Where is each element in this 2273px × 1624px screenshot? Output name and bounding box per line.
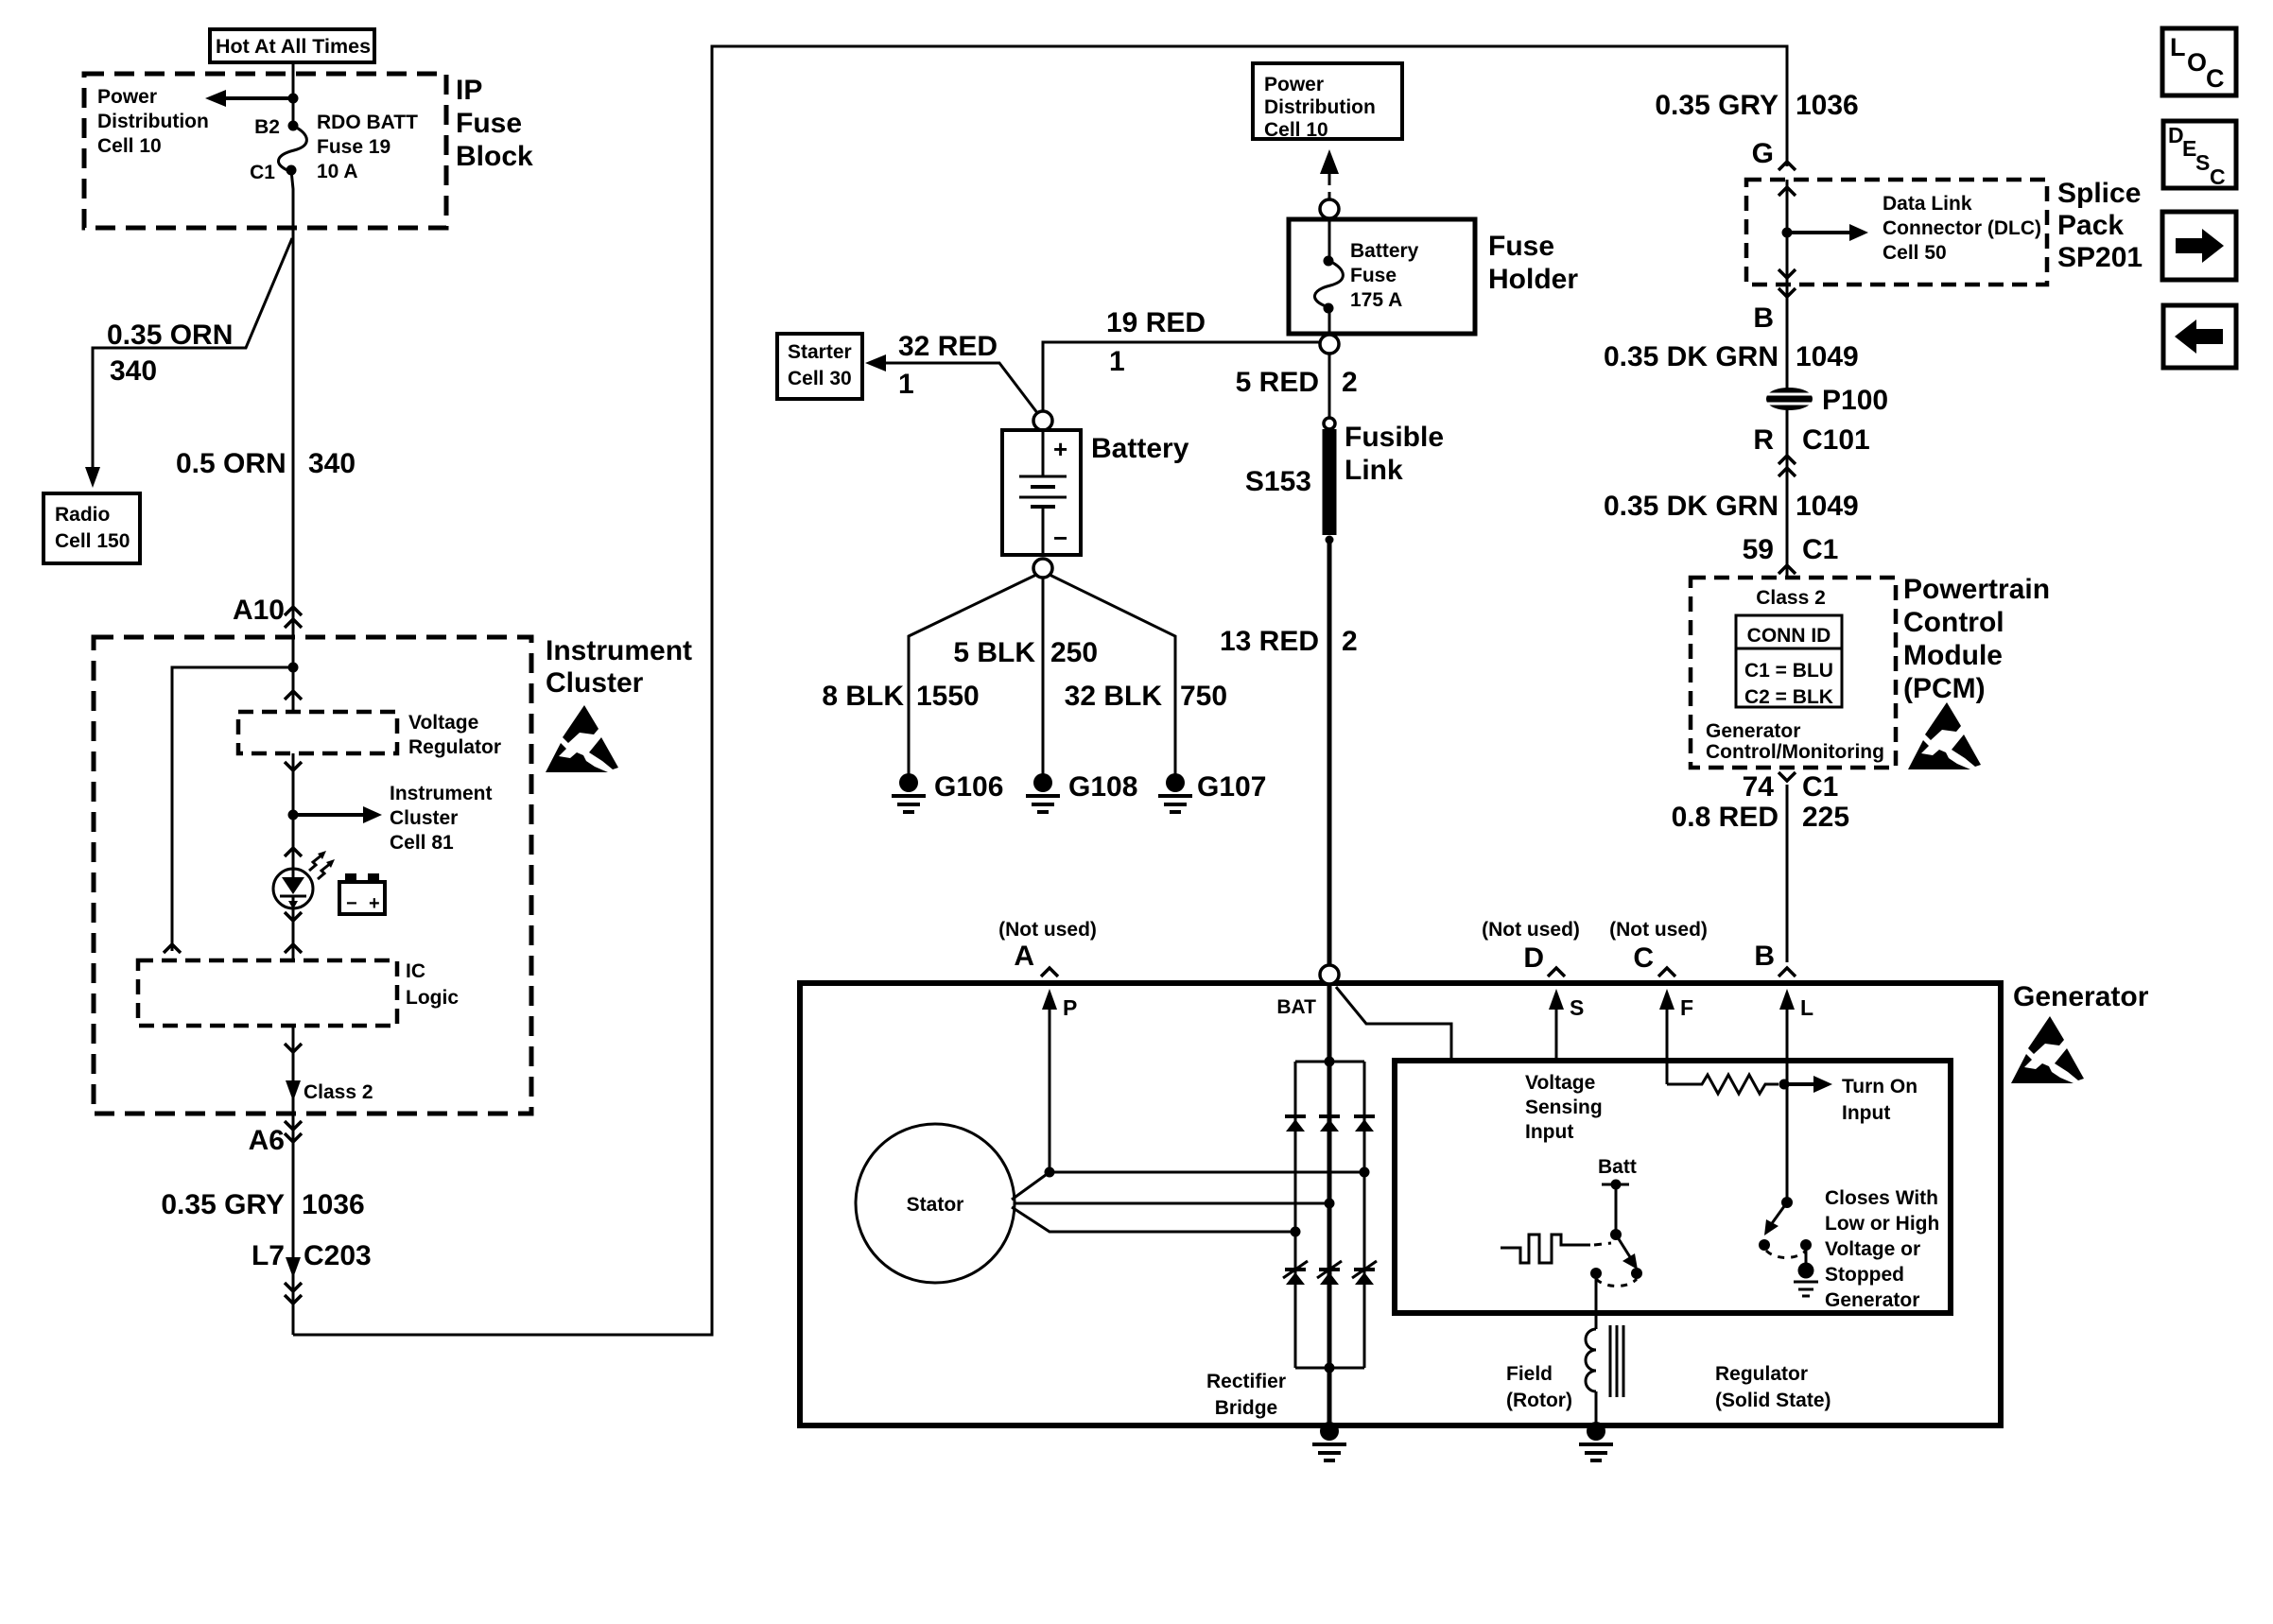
svg-text:8 BLK: 8 BLK bbox=[822, 681, 904, 712]
svg-text:1: 1 bbox=[898, 369, 914, 400]
svg-text:S: S bbox=[2195, 150, 2210, 175]
svg-text:0.35 ORN: 0.35 ORN bbox=[107, 320, 233, 351]
svg-text:A10: A10 bbox=[233, 595, 285, 626]
svg-text:C: C bbox=[2206, 64, 2225, 93]
svg-text:2: 2 bbox=[1342, 367, 1358, 398]
svg-text:74: 74 bbox=[1743, 771, 1775, 803]
svg-text:250: 250 bbox=[1050, 637, 1098, 668]
svg-text:1: 1 bbox=[1109, 346, 1125, 377]
svg-text:Generator: Generator bbox=[2013, 981, 2149, 1012]
svg-text:C2 = BLK: C2 = BLK bbox=[1744, 686, 1833, 708]
svg-text:0.35 GRY: 0.35 GRY bbox=[161, 1189, 285, 1220]
svg-text:Class 2: Class 2 bbox=[1756, 587, 1826, 609]
svg-text:G107: G107 bbox=[1197, 771, 1266, 803]
svg-text:C101: C101 bbox=[1802, 424, 1870, 456]
svg-text:L7: L7 bbox=[252, 1240, 285, 1271]
svg-text:Generator: Generator bbox=[1706, 720, 1800, 742]
svg-text:Cell 10: Cell 10 bbox=[97, 135, 162, 157]
svg-text:32 RED: 32 RED bbox=[898, 331, 998, 362]
svg-text:Fuse 19: Fuse 19 bbox=[317, 136, 390, 158]
svg-text:P100: P100 bbox=[1822, 385, 1888, 416]
svg-text:Voltage: Voltage bbox=[1525, 1072, 1595, 1094]
svg-text:19 RED: 19 RED bbox=[1106, 307, 1206, 338]
svg-text:(Solid State): (Solid State) bbox=[1715, 1390, 1831, 1411]
svg-text:0.35 DK GRN: 0.35 DK GRN bbox=[1604, 491, 1778, 522]
svg-text:Hot At All Times: Hot At All Times bbox=[216, 35, 371, 58]
svg-text:C1: C1 bbox=[1802, 534, 1838, 565]
svg-text:C1 = BLU: C1 = BLU bbox=[1744, 660, 1833, 682]
svg-text:Turn On: Turn On bbox=[1842, 1076, 1917, 1097]
svg-text:Stator: Stator bbox=[907, 1194, 964, 1216]
svg-text:R: R bbox=[1753, 424, 1774, 456]
svg-text:(Rotor): (Rotor) bbox=[1506, 1390, 1572, 1411]
svg-text:0.8 RED: 0.8 RED bbox=[1672, 802, 1778, 833]
svg-text:B: B bbox=[1753, 302, 1774, 334]
svg-text:Fuse: Fuse bbox=[1488, 231, 1554, 262]
svg-text:Pack: Pack bbox=[2057, 210, 2124, 241]
svg-text:Battery: Battery bbox=[1350, 240, 1419, 262]
svg-text:Regulator: Regulator bbox=[408, 736, 501, 758]
svg-text:Powertrain: Powertrain bbox=[1903, 574, 2050, 605]
svg-text:Block: Block bbox=[456, 141, 533, 172]
svg-text:Logic: Logic bbox=[406, 987, 459, 1009]
svg-text:1036: 1036 bbox=[302, 1189, 365, 1220]
svg-text:1049: 1049 bbox=[1796, 491, 1859, 522]
svg-text:750: 750 bbox=[1180, 681, 1227, 712]
svg-text:340: 340 bbox=[308, 448, 356, 479]
svg-text:0.5 ORN: 0.5 ORN bbox=[176, 448, 286, 479]
svg-text:225: 225 bbox=[1802, 802, 1849, 833]
svg-text:0.35 DK GRN: 0.35 DK GRN bbox=[1604, 341, 1778, 372]
svg-text:+: + bbox=[1053, 435, 1067, 463]
svg-text:P: P bbox=[1063, 995, 1077, 1020]
svg-text:Closes With: Closes With bbox=[1825, 1187, 1938, 1209]
svg-text:5 BLK: 5 BLK bbox=[953, 637, 1035, 668]
svg-text:Input: Input bbox=[1842, 1102, 1890, 1124]
svg-text:Battery: Battery bbox=[1091, 433, 1189, 464]
svg-text:32 BLK: 32 BLK bbox=[1065, 681, 1163, 712]
svg-text:A: A bbox=[1014, 941, 1034, 972]
svg-text:B2: B2 bbox=[254, 116, 280, 138]
svg-text:Cluster: Cluster bbox=[546, 667, 644, 699]
svg-text:+: + bbox=[369, 893, 380, 914]
svg-text:C1: C1 bbox=[1802, 771, 1838, 803]
svg-text:Module: Module bbox=[1903, 640, 2003, 671]
svg-text:Cell 81: Cell 81 bbox=[390, 832, 454, 854]
svg-text:Regulator: Regulator bbox=[1715, 1363, 1808, 1385]
svg-text:(PCM): (PCM) bbox=[1903, 673, 1986, 704]
svg-text:Control/Monitoring: Control/Monitoring bbox=[1706, 741, 1884, 763]
svg-text:Bridge: Bridge bbox=[1215, 1397, 1278, 1419]
svg-text:0.35 GRY: 0.35 GRY bbox=[1655, 90, 1778, 121]
svg-text:F: F bbox=[1680, 995, 1693, 1020]
svg-text:D: D bbox=[1523, 942, 1544, 974]
svg-text:1550: 1550 bbox=[916, 681, 980, 712]
svg-text:2: 2 bbox=[1342, 626, 1358, 657]
svg-text:Power: Power bbox=[97, 86, 157, 108]
svg-text:Low or High: Low or High bbox=[1825, 1213, 1939, 1235]
svg-text:G108: G108 bbox=[1068, 771, 1137, 803]
svg-text:L: L bbox=[2170, 33, 2186, 61]
svg-text:Data Link: Data Link bbox=[1883, 193, 1972, 215]
svg-text:Instrument: Instrument bbox=[390, 783, 493, 804]
svg-text:Radio: Radio bbox=[55, 504, 110, 526]
svg-text:L: L bbox=[1800, 995, 1813, 1020]
svg-text:Cell 30: Cell 30 bbox=[788, 368, 852, 389]
svg-text:(Not used): (Not used) bbox=[1482, 919, 1580, 941]
svg-text:Power: Power bbox=[1264, 74, 1324, 95]
svg-text:1036: 1036 bbox=[1796, 90, 1859, 121]
svg-text:C1: C1 bbox=[250, 162, 275, 183]
svg-text:Fuse: Fuse bbox=[456, 108, 522, 139]
svg-text:Cell 10: Cell 10 bbox=[1264, 119, 1328, 141]
svg-text:S: S bbox=[1570, 995, 1584, 1020]
svg-text:C203: C203 bbox=[304, 1240, 372, 1271]
svg-text:13 RED: 13 RED bbox=[1220, 626, 1319, 657]
svg-text:O: O bbox=[2187, 48, 2207, 77]
svg-text:Sensing: Sensing bbox=[1525, 1097, 1603, 1118]
svg-text:Cell 150: Cell 150 bbox=[55, 530, 130, 552]
svg-text:−: − bbox=[1053, 524, 1067, 552]
svg-text:1049: 1049 bbox=[1796, 341, 1859, 372]
svg-text:IP: IP bbox=[456, 75, 482, 106]
svg-text:Voltage or: Voltage or bbox=[1825, 1238, 1920, 1260]
svg-text:Splice: Splice bbox=[2057, 178, 2141, 209]
svg-text:S153: S153 bbox=[1245, 466, 1311, 497]
svg-text:Stopped: Stopped bbox=[1825, 1264, 1904, 1286]
svg-text:Cluster: Cluster bbox=[390, 807, 458, 829]
svg-text:Fuse: Fuse bbox=[1350, 265, 1397, 286]
svg-text:Connector (DLC): Connector (DLC) bbox=[1883, 217, 2041, 239]
svg-text:Control: Control bbox=[1903, 607, 2004, 638]
svg-text:Input: Input bbox=[1525, 1121, 1573, 1143]
svg-text:C: C bbox=[1633, 942, 1654, 974]
svg-text:A6: A6 bbox=[249, 1125, 285, 1156]
svg-text:59: 59 bbox=[1743, 534, 1774, 565]
svg-text:340: 340 bbox=[110, 355, 157, 387]
svg-text:IC: IC bbox=[406, 960, 425, 982]
svg-text:Link: Link bbox=[1345, 455, 1403, 486]
svg-text:10 A: 10 A bbox=[317, 161, 358, 182]
svg-text:(Not used): (Not used) bbox=[998, 919, 1097, 941]
svg-text:BAT: BAT bbox=[1276, 996, 1316, 1018]
svg-text:G: G bbox=[1752, 138, 1774, 169]
svg-text:−: − bbox=[346, 893, 357, 914]
svg-text:Distribution: Distribution bbox=[1264, 96, 1376, 118]
svg-text:G106: G106 bbox=[934, 771, 1003, 803]
svg-text:C: C bbox=[2210, 164, 2226, 189]
svg-text:Batt: Batt bbox=[1598, 1156, 1637, 1178]
svg-text:(Not used): (Not used) bbox=[1609, 919, 1708, 941]
svg-text:Generator: Generator bbox=[1825, 1289, 1919, 1311]
svg-text:Field: Field bbox=[1506, 1363, 1553, 1385]
svg-text:Fusible: Fusible bbox=[1345, 422, 1444, 453]
svg-text:5 RED: 5 RED bbox=[1236, 367, 1319, 398]
svg-text:Instrument: Instrument bbox=[546, 635, 692, 666]
svg-text:175 A: 175 A bbox=[1350, 289, 1402, 311]
svg-text:Rectifier: Rectifier bbox=[1206, 1371, 1286, 1392]
svg-text:Distribution: Distribution bbox=[97, 111, 209, 132]
svg-text:Cell 50: Cell 50 bbox=[1883, 242, 1947, 264]
svg-text:Starter: Starter bbox=[788, 341, 852, 363]
svg-text:CONN ID: CONN ID bbox=[1747, 625, 1831, 647]
svg-text:Class 2: Class 2 bbox=[304, 1081, 373, 1103]
svg-text:Holder: Holder bbox=[1488, 264, 1578, 295]
svg-text:Voltage: Voltage bbox=[408, 712, 478, 734]
svg-text:RDO BATT: RDO BATT bbox=[317, 112, 418, 133]
svg-text:SP201: SP201 bbox=[2057, 242, 2143, 273]
svg-text:B: B bbox=[1754, 941, 1775, 972]
